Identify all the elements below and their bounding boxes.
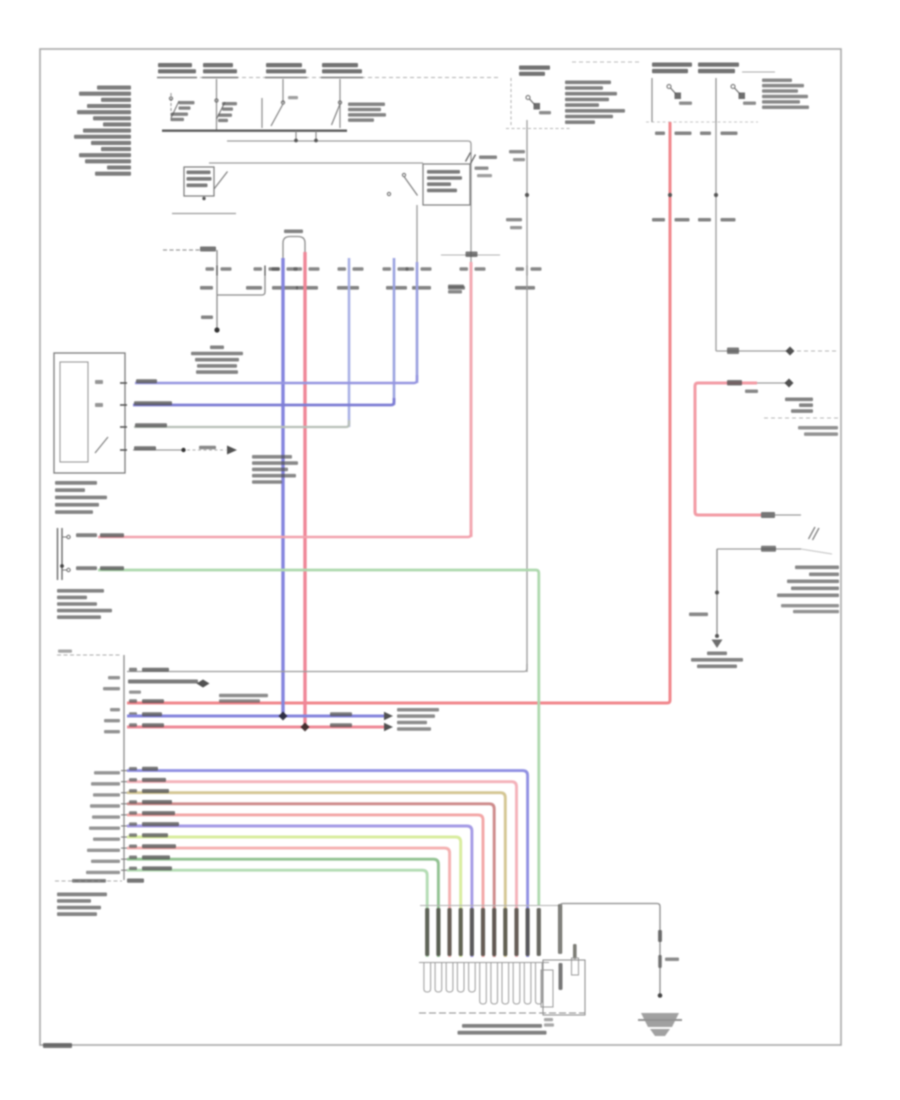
- parking brake wire vertical: [716, 549, 718, 637]
- bundle wire 8 stub label: [87, 849, 120, 852]
- arrow head blue wire: [384, 712, 393, 721]
- bundle wire 9 stub label: [91, 860, 120, 863]
- terminal box bottom right: [543, 960, 585, 1015]
- connector pin bar 6: [481, 908, 485, 956]
- note above red wire: [219, 694, 268, 697]
- pin label left x305: [294, 267, 303, 270]
- pin tick x305: [304, 266, 306, 276]
- option text right: [798, 426, 838, 430]
- tiny label below drop 471: [477, 174, 492, 177]
- bundle wire 10 colored: [127, 870, 427, 957]
- connector dashed base line: [419, 1012, 585, 1014]
- gray tail bottom of C: [775, 514, 801, 516]
- red C bottom connector label: [761, 512, 775, 518]
- switch SW2 contact: [215, 99, 218, 102]
- bundle wire 7 pin label: [129, 833, 137, 836]
- switch SW4 contact: [338, 101, 341, 104]
- fuse F2 symbol link: [735, 88, 741, 94]
- pin tick x217: [216, 266, 218, 276]
- connector pin bar 2: [436, 908, 440, 956]
- bundle wire 6 pin label: [129, 822, 137, 825]
- connector ticks on F2 wire: [727, 348, 739, 355]
- bundle wire 8 pin label: [129, 844, 137, 847]
- switch pin tick 2: [120, 404, 127, 406]
- bundle wire 4 bracket tick: [121, 803, 127, 805]
- bundle wire 7 color label: [142, 833, 168, 837]
- fuse F1 stem: [651, 78, 653, 122]
- wire turn-R blue horizontal: [133, 398, 394, 405]
- label battery feed 2: [203, 63, 233, 67]
- switch SW3 tiny label: [288, 96, 298, 99]
- terminal outline 10: [524, 963, 531, 1004]
- wire stub row 4: [133, 449, 182, 451]
- label by ground path: [665, 958, 679, 962]
- fuse F2 symbol terminal: [739, 93, 746, 100]
- relay text block right of bus: [348, 103, 385, 107]
- terminal outline 6: [480, 963, 487, 1004]
- bracket stub label: [103, 687, 120, 690]
- wire W/R red power vertical: [127, 122, 670, 703]
- switch SW2 position label: [218, 114, 232, 117]
- pin tick x471: [470, 266, 472, 276]
- connector tick on ground path: [658, 930, 662, 942]
- pin label right x471: [475, 267, 486, 270]
- W/B row color label: [142, 668, 169, 672]
- switch pin tick 3: [120, 426, 127, 428]
- harness bracket vertical: [123, 655, 125, 880]
- jumper arc label: [284, 230, 303, 234]
- relay U1 aux contact: [387, 192, 390, 195]
- wire W/B long gray vertical: [526, 130, 528, 672]
- terminal outline 9: [513, 963, 520, 1004]
- switch SW3 side stem: [261, 98, 263, 128]
- label under pale red drop: [448, 285, 464, 288]
- switch contact mark 2: [95, 403, 103, 407]
- ignition switch underline: [172, 213, 236, 215]
- wire W/R pale red vertical: [470, 262, 473, 537]
- row4 annotation text block: [252, 455, 292, 459]
- red C label top: [727, 380, 742, 386]
- label 2 right of drop 471: [475, 167, 489, 170]
- bracket bottom text block: [57, 893, 107, 897]
- fuse F1 symbol terminal: [675, 93, 682, 100]
- pb connector dot 2: [715, 634, 719, 638]
- pin tick x265: [264, 266, 266, 276]
- wire color code label: [296, 286, 318, 290]
- pin label left x217: [206, 267, 215, 270]
- terminal mark upper: [67, 535, 70, 538]
- link line above pin row: [441, 254, 500, 256]
- mid label on blue wire: [330, 712, 352, 716]
- red row pin label: [129, 699, 137, 702]
- bundle wire 7 colored: [127, 837, 461, 957]
- ignition switch box text: [187, 171, 211, 175]
- wire W/R pin label left: [655, 132, 665, 136]
- ground junction dot: [658, 993, 663, 998]
- connector label below C top: [745, 390, 758, 394]
- red row color label: [142, 699, 164, 703]
- wire L blue vertical: [281, 258, 284, 716]
- switch SW3 contact: [281, 101, 284, 104]
- wire from fuse F2 vertical: [715, 122, 717, 351]
- fuse block note text: [565, 81, 611, 85]
- bus segment under label 1: [157, 77, 197, 79]
- branch wire from pin 265: [217, 275, 265, 295]
- wire R red vertical: [303, 252, 306, 727]
- label ignition feed 4: [322, 63, 358, 67]
- bundle wire 5 stub label: [92, 815, 120, 818]
- terminal wide outline right: [541, 970, 553, 1007]
- bundle wire 9 colored: [127, 859, 438, 957]
- relay U1 coil contact: [402, 173, 405, 176]
- connector E28 lead line: [163, 249, 200, 251]
- wire color code label: [515, 286, 535, 290]
- bundle wire 3 stub label: [93, 793, 120, 796]
- wire hazard pale horizontal: [134, 420, 349, 427]
- terminal outline 11: [536, 963, 543, 1004]
- pin bar inside box: [559, 963, 563, 990]
- connector dot on gray wire: [525, 193, 529, 197]
- bundle wire 6 stub label: [89, 826, 120, 829]
- lower terminal label: [76, 566, 97, 570]
- connector pin bar 10: [526, 908, 530, 956]
- bundle wire 3 pin label: [129, 789, 137, 792]
- bundle wire 7 bracket tick: [121, 836, 127, 838]
- terminal outline 2: [435, 963, 442, 992]
- small terminal outline 2: [572, 958, 579, 975]
- diamond top of C: [785, 379, 794, 388]
- bundle wire 10 color label: [142, 866, 172, 870]
- fuse block right dashed bottom: [646, 121, 758, 123]
- mid label on red wire: [330, 723, 352, 727]
- red2 row color label: [142, 723, 164, 727]
- junction dot A1: [294, 139, 298, 143]
- pin label right x349: [353, 267, 364, 270]
- bundle wire 4 color label: [142, 800, 172, 804]
- wire color code label: [337, 286, 359, 290]
- relay drop gray-blue: [416, 205, 418, 262]
- bundle wire 1 colored: [127, 771, 528, 957]
- wire blue vertical 3: [416, 262, 419, 383]
- pin tick x417: [416, 266, 418, 276]
- bus stub right of fuse labels: [742, 71, 775, 73]
- connector pin bar 5: [470, 908, 474, 956]
- component double bar right: [61, 528, 63, 580]
- W/B row pin label: [129, 668, 137, 671]
- connector pin bar 9: [514, 908, 518, 956]
- red wire color label: [100, 533, 124, 537]
- fuse F3 label: [519, 66, 550, 70]
- bracket stub label: [108, 676, 120, 679]
- wire drop to switch SW4: [339, 79, 341, 128]
- bundle wire 10 pin label: [129, 867, 137, 870]
- fuse F3 rating label: [539, 111, 551, 114]
- splice stem wire x217: [216, 250, 218, 329]
- blue row color label: [142, 712, 162, 716]
- terminal outline 1: [424, 963, 431, 992]
- fuse block dashed bottom: [506, 128, 572, 130]
- wire green from sensor: [98, 570, 539, 905]
- fuse block dashed left edge: [510, 78, 512, 127]
- dashed option line right: [764, 417, 838, 419]
- gray tail top of C: [757, 382, 787, 384]
- bundle wire 5 colored: [127, 815, 483, 957]
- pin label left x417: [406, 267, 415, 270]
- pin label left x265: [254, 267, 263, 270]
- connector slash symbol: [809, 527, 816, 539]
- fuse F1 symbol link: [671, 88, 677, 94]
- turn-L wire label: [136, 379, 157, 383]
- bundle wire 3 bracket tick: [121, 792, 127, 794]
- component double bar left: [57, 528, 59, 580]
- wire drop to switch SW3: [282, 79, 284, 103]
- bundle wire 1 color label: [142, 767, 158, 771]
- bundle wire 9 color label: [142, 855, 170, 859]
- pin label right x217: [221, 267, 232, 270]
- wire from F2 horizontal: [716, 350, 789, 352]
- bus segment under label 2: [202, 77, 238, 79]
- bracket stub label: [104, 719, 120, 722]
- fuse F2 stem: [715, 78, 717, 122]
- fuse F3 lead: [526, 120, 528, 130]
- terminal comb top line: [419, 962, 549, 964]
- wire drop to switch SW2: [216, 79, 218, 130]
- turn-R wire label: [134, 401, 172, 405]
- upper terminal label: [76, 533, 97, 537]
- bundle wire 5 pin label: [129, 811, 137, 814]
- connector M152 label: [127, 879, 144, 883]
- arrow head row4: [227, 446, 237, 455]
- fuse F2 symbol loop: [731, 85, 735, 89]
- pin bar right path: [558, 904, 562, 954]
- pin label left x471: [460, 267, 469, 270]
- label on gray wire 2: [513, 158, 525, 161]
- combination switch outer box: [54, 353, 125, 473]
- terminal outline 3: [446, 963, 453, 992]
- pin label right x527: [531, 267, 542, 270]
- wire red to sensor: [98, 530, 471, 537]
- pin label left x394: [383, 267, 392, 270]
- connector pin bar 8: [503, 908, 507, 956]
- pb wire label: [689, 613, 708, 617]
- bundle wire 1 bracket tick: [121, 770, 127, 772]
- label on splice stem: [201, 316, 213, 320]
- parking brake text block 2: [781, 604, 839, 607]
- bracket dashed lead bottom: [55, 880, 122, 882]
- bracket bottom dark segment: [72, 879, 106, 883]
- flasher unit text: [785, 398, 813, 402]
- pin label right x283: [287, 267, 298, 270]
- note row text: [128, 680, 198, 684]
- fuse F2 wire color label right: [721, 132, 738, 136]
- pin tick x283: [282, 266, 284, 276]
- pb wire faint tail: [801, 549, 832, 554]
- bundle wire 6 color label: [142, 822, 179, 826]
- line A junction stub 1: [295, 131, 297, 141]
- switch SW1 position label: [171, 113, 188, 116]
- tiny text left of box bottom: [544, 1018, 553, 1021]
- wire color code label: [200, 286, 213, 290]
- pin label right x265: [269, 267, 280, 270]
- terminal outline 5: [469, 963, 476, 992]
- relay U1 lever: [404, 177, 418, 196]
- bus segment under label 3: [265, 77, 307, 79]
- wire row line A: [227, 141, 471, 262]
- dashes after F2 wire: [797, 350, 838, 352]
- top bus bar: [162, 130, 347, 132]
- pin tick x394: [393, 266, 395, 276]
- bundle wire 10 bracket tick: [121, 869, 127, 871]
- pin label right x417: [421, 267, 432, 270]
- pin label left x527: [516, 267, 525, 270]
- terminal outline 7: [491, 963, 498, 1004]
- combination switch inner outline: [60, 362, 88, 462]
- wire color code label: [272, 286, 298, 290]
- dashed power bus: [158, 77, 500, 79]
- connector pin bar 1: [425, 908, 429, 956]
- switch SW4 lever: [332, 104, 341, 125]
- line A junction stub 2: [315, 131, 317, 141]
- junction blob on link line: [466, 252, 478, 258]
- switch contact mark 1: [95, 380, 103, 384]
- wire L/W pale vertical 2: [393, 258, 396, 405]
- switch SW3 lever: [271, 104, 283, 126]
- bundle wire 4 stub label: [90, 804, 120, 807]
- label ignition feed 3: [266, 63, 302, 67]
- switch SW1 lever: [171, 101, 179, 118]
- fuse F2 wire pin label left: [700, 132, 711, 136]
- label below dot gray wire: [506, 218, 522, 221]
- rear combination lamp text: [462, 1024, 542, 1028]
- fuse F2 label: [698, 63, 739, 67]
- pin tick x349: [348, 266, 350, 276]
- relay box U1 text: [427, 170, 460, 174]
- ground symbol G1: [638, 1013, 682, 1036]
- wire color code label: [246, 286, 262, 290]
- bundle wire 8 colored: [127, 848, 450, 957]
- bundle wire 5 bracket tick: [121, 814, 127, 816]
- connector pin bar 7: [492, 908, 496, 956]
- small pin bar 2: [573, 944, 577, 959]
- terminal mark lower: [67, 568, 70, 571]
- bundle wire 1 stub label: [94, 771, 120, 774]
- fuse F3 symbol terminal: [534, 103, 541, 110]
- pin label left x283: [272, 267, 281, 270]
- pin label right x394: [398, 267, 409, 270]
- wire turn-L blue horizontal: [135, 375, 417, 383]
- pin label left x349: [338, 267, 347, 270]
- bundle wire 8 color label: [142, 844, 176, 848]
- fuse block right note text: [762, 79, 792, 83]
- sensor text block: [57, 589, 104, 593]
- terminal outline 4: [457, 963, 464, 992]
- arrow destination text block: [397, 708, 439, 712]
- wire W/B gray horizontal: [127, 664, 527, 672]
- diamond on F2 wire: [786, 347, 795, 356]
- junction diamond blue: [279, 712, 288, 721]
- wire color code label: [412, 286, 431, 290]
- pin tick x527: [526, 266, 528, 276]
- bundle wire 2 pin label: [129, 778, 137, 781]
- red2 row pin label: [129, 723, 137, 726]
- bundle wire 6 colored: [127, 826, 472, 957]
- fuse F2 rating label: [743, 102, 756, 105]
- red wire connector label left: [652, 218, 665, 222]
- bundle wire 6 bracket tick: [121, 825, 127, 827]
- switch SW1 dashed stem: [170, 93, 172, 122]
- F2 wire connector label right: [721, 218, 736, 222]
- splice dot S1: [214, 327, 219, 332]
- fuse F1 symbol loop: [667, 85, 671, 89]
- bundle wire 2 stub label: [91, 782, 120, 785]
- switch SW2 label: [222, 102, 237, 105]
- wire color code label: [448, 286, 465, 290]
- junction dot A2: [314, 139, 318, 143]
- bundle wire 2 color label: [142, 778, 166, 782]
- wire color code label: [386, 286, 407, 290]
- label below dot gray wire 2: [510, 226, 522, 229]
- bundle wire 3 colored: [127, 793, 505, 957]
- ground path wire: [560, 904, 660, 995]
- label battery feed 1: [158, 63, 192, 67]
- fuse F3 symbol loop: [526, 96, 530, 100]
- bundle wire 1 pin label: [129, 767, 137, 770]
- wire W/R color label right: [675, 132, 692, 136]
- annotation label row4: [199, 446, 216, 450]
- dashed bus right segment: [572, 61, 640, 63]
- bundle wire 2 colored: [127, 782, 517, 957]
- connector pin bar 4: [459, 908, 463, 956]
- bracket stub label: [104, 730, 120, 733]
- bundle wire 3 color label: [142, 789, 169, 793]
- parking brake text block: [795, 566, 839, 570]
- bracket dashed lead top: [57, 654, 122, 656]
- wire L/B pale vertical 1: [348, 258, 351, 427]
- bundle wire 4 pin label: [129, 800, 137, 803]
- switch pin tick 1: [120, 382, 127, 384]
- connector tick 2 on ground path: [658, 955, 662, 968]
- switch SW1 label: [179, 101, 195, 104]
- bus segment under label 4: [321, 77, 363, 79]
- fuse F3 symbol link: [530, 99, 536, 105]
- relay box U1: [423, 164, 470, 205]
- component terminal dot: [60, 564, 64, 568]
- terminal outline 8: [502, 963, 509, 1004]
- legend text block: [97, 86, 131, 90]
- combination switch text block: [55, 481, 97, 485]
- fuse F1 rating label: [679, 102, 692, 105]
- connector pin bar 11: [537, 908, 541, 956]
- connector pass dot on red wire: [668, 193, 672, 197]
- connector jumper arc: [283, 237, 305, 259]
- connector slash on drop 471: [466, 153, 471, 162]
- wire L/B blue horizontal: [127, 715, 384, 718]
- row4 wire label: [134, 446, 156, 450]
- ignition switch lever: [214, 172, 228, 190]
- label on gray wire 1: [509, 150, 525, 153]
- label right of connector 471: [479, 156, 497, 160]
- ground G2 text block: [707, 652, 727, 656]
- bundle wire 10 stub label: [86, 871, 120, 874]
- red row 2 wire: [127, 726, 384, 729]
- parking brake wire horizontal: [717, 548, 801, 550]
- green wire color label: [100, 566, 124, 570]
- bundle wire 9 bracket tick: [121, 858, 127, 860]
- switch SW2 lever: [217, 102, 226, 119]
- blue row pin label: [129, 712, 137, 715]
- fuse F1 label: [652, 63, 692, 67]
- bundle wire 5 color label: [142, 811, 175, 815]
